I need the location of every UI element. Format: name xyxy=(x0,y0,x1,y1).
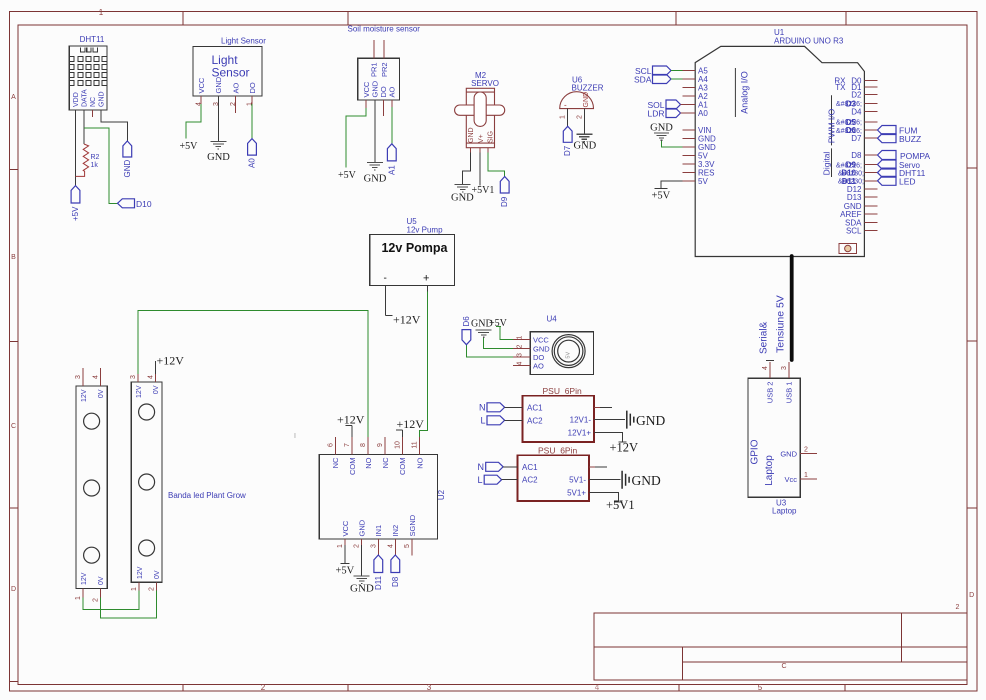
svg-text:VDD: VDD xyxy=(73,92,80,107)
ground GND (U4) xyxy=(471,319,493,338)
svg-text:12V: 12V xyxy=(137,566,144,579)
svg-text:11: 11 xyxy=(412,441,419,448)
svg-text:3: 3 xyxy=(781,366,788,370)
svg-text:+12V: +12V xyxy=(157,354,185,368)
svg-text:GND: GND xyxy=(632,473,661,488)
svg-text:5V: 5V xyxy=(698,177,708,186)
wire PSU1 12V1+ to +12V xyxy=(594,432,627,442)
motor M2 SERVO xyxy=(455,71,505,148)
svg-text:2: 2 xyxy=(804,447,808,454)
svg-text:V+: V+ xyxy=(478,134,485,143)
LED strip1 pin 2 xyxy=(93,588,101,602)
svg-text:Analog I/O: Analog I/O xyxy=(740,71,750,114)
svg-text:-: - xyxy=(384,273,387,284)
svg-text:NO: NO xyxy=(364,457,373,468)
svg-text:GPIO: GPIO xyxy=(750,439,761,464)
ground GND (Light Sensor) xyxy=(207,142,230,164)
relay pin 7 to +12V xyxy=(344,426,352,455)
net flag L (PSU2) xyxy=(477,475,517,485)
svg-text:1: 1 xyxy=(99,8,104,17)
component DHT11 xyxy=(69,35,107,110)
svg-text:1: 1 xyxy=(517,335,524,339)
svg-text:5V: 5V xyxy=(566,352,572,359)
svg-text:GND: GND xyxy=(574,141,597,152)
LED strip2 pin 2 xyxy=(148,582,156,591)
svg-text:COM: COM xyxy=(398,458,407,476)
wire DHT11 GND xyxy=(101,110,127,141)
svg-text:5: 5 xyxy=(758,683,763,692)
wire servo SIG to D9 xyxy=(488,148,505,177)
net flag D6 xyxy=(462,316,471,345)
svg-text:0V: 0V xyxy=(153,385,160,394)
svg-text:IN2: IN2 xyxy=(391,525,400,537)
svg-text:D: D xyxy=(969,592,974,599)
USB cable U1 to U3 xyxy=(790,256,794,360)
svg-text:D7: D7 xyxy=(563,145,572,156)
component Light Sensor xyxy=(193,37,266,107)
net flag LDR xyxy=(647,109,682,119)
svg-text:NC: NC xyxy=(381,457,390,468)
svg-text:12V: 12V xyxy=(81,389,88,402)
wire soil AO to A1 xyxy=(391,100,393,144)
svg-text:4: 4 xyxy=(517,361,524,365)
wire relay NO pin8 to LED strip xyxy=(138,311,368,437)
wire soil DO stub xyxy=(382,100,384,116)
power supply PSU_6Pin (5V) xyxy=(518,446,589,502)
svg-text:D7: D7 xyxy=(851,134,862,143)
svg-text:AC1: AC1 xyxy=(522,463,538,472)
net flag D9 xyxy=(500,177,509,208)
svg-text:DO: DO xyxy=(248,82,257,93)
svg-text:I: I xyxy=(294,433,296,440)
PSU2 unused pin stub xyxy=(589,466,595,468)
net flag BUZZ xyxy=(878,134,922,144)
svg-text:2: 2 xyxy=(354,544,361,548)
svg-text:GND: GND xyxy=(214,76,223,93)
svg-text:B: B xyxy=(11,254,16,261)
LED strip2 pin 3 xyxy=(130,374,138,382)
svg-text:PSU_6Pin: PSU_6Pin xyxy=(543,386,582,396)
svg-text:4: 4 xyxy=(595,683,600,692)
wire servo GND xyxy=(463,148,471,184)
svg-text:D: D xyxy=(11,586,16,593)
title block xyxy=(594,613,967,680)
svg-text:5V1+: 5V1+ xyxy=(567,489,586,498)
svg-text:Digital: Digital xyxy=(822,152,832,176)
svg-text:+5V: +5V xyxy=(652,191,671,202)
svg-text:D9: D9 xyxy=(500,196,509,207)
svg-text:PR2: PR2 xyxy=(380,62,389,77)
ground GND (soil) xyxy=(364,163,387,185)
svg-text:U4: U4 xyxy=(547,315,558,324)
svg-text:LED: LED xyxy=(899,177,916,187)
net label Serial & Tensiune 5V xyxy=(759,295,787,354)
net flag N (PSU1) xyxy=(479,403,523,413)
svg-text:+5V: +5V xyxy=(180,141,199,152)
svg-text:GND: GND xyxy=(99,91,106,107)
net flag SCL xyxy=(635,66,683,76)
svg-text:D13: D13 xyxy=(847,193,862,202)
svg-text:+5V: +5V xyxy=(336,566,355,577)
wire pump minus to +12V xyxy=(386,286,393,316)
svg-text:LDR: LDR xyxy=(647,109,664,119)
logo mark U1 xyxy=(839,244,857,254)
svg-text:D10: D10 xyxy=(136,199,152,209)
U3 pin 3 (USB 1) xyxy=(781,362,789,378)
svg-text:L: L xyxy=(480,416,485,426)
relay module U2 xyxy=(319,455,446,540)
svg-text:TX: TX xyxy=(835,83,846,92)
net flag D10 xyxy=(118,199,152,209)
svg-text:VCC: VCC xyxy=(362,81,371,97)
svg-text:D4: D4 xyxy=(851,108,862,117)
svg-text:SERVO: SERVO xyxy=(471,79,499,88)
wire DHT11 DATA xyxy=(83,110,85,144)
svg-text:NO: NO xyxy=(415,457,424,468)
svg-text:D11: D11 xyxy=(374,575,383,590)
svg-text:GND: GND xyxy=(358,519,367,536)
svg-text:4: 4 xyxy=(93,375,100,379)
LED strip 1 xyxy=(76,386,107,588)
svg-text:A0: A0 xyxy=(698,109,708,118)
svg-text:GND: GND xyxy=(780,449,797,458)
svg-text:+: + xyxy=(423,273,429,285)
wire LightSensor AO stub xyxy=(235,96,237,113)
svg-text:1: 1 xyxy=(560,115,567,119)
svg-text:VCC: VCC xyxy=(341,520,350,536)
wire LightSensor DO to A0 xyxy=(251,96,253,139)
relay pin 9 stub xyxy=(377,437,385,455)
svg-text:1k: 1k xyxy=(91,162,99,169)
relay pin 5 SGND stub xyxy=(404,539,412,556)
svg-text:12V: 12V xyxy=(81,572,88,585)
PSU1 unused pin stub xyxy=(594,406,600,408)
svg-text:2: 2 xyxy=(261,683,266,692)
net flag DHT11 xyxy=(878,168,926,178)
net flag D8 xyxy=(391,555,400,587)
svg-text:+5V1: +5V1 xyxy=(606,498,635,512)
U3 pin 2 GND xyxy=(800,447,817,454)
svg-text:Laptop: Laptop xyxy=(764,455,775,486)
net flag Servo xyxy=(878,160,921,170)
svg-text:L: L xyxy=(477,475,482,485)
ground GND (relay) xyxy=(350,576,374,595)
net flag GND (DHT11) xyxy=(123,141,132,178)
U4 pin 2 GND xyxy=(484,337,531,349)
svg-text:7: 7 xyxy=(344,443,351,447)
wire LightSensor VCC to +5V xyxy=(186,96,201,139)
svg-text:3: 3 xyxy=(75,375,82,379)
relay pin 3 IN1 to D11 xyxy=(370,539,378,555)
svg-text:Soil moisture sensor: Soil moisture sensor xyxy=(348,25,421,34)
wire strip1 pin2 to strip2 pin2 xyxy=(101,591,157,618)
net flag L (PSU1) xyxy=(480,416,522,426)
svg-text:Vcc: Vcc xyxy=(784,475,797,484)
svg-text:+12V: +12V xyxy=(610,441,639,455)
wire strip1 pin1 to strip2 pin1 xyxy=(83,591,139,610)
power supply PSU_6Pin (12V) xyxy=(523,386,595,442)
svg-text:1: 1 xyxy=(804,472,808,479)
svg-text:D6: D6 xyxy=(462,316,471,327)
svg-text:GND: GND xyxy=(123,160,132,178)
ground GND (U1) xyxy=(650,123,683,148)
net flag N (PSU2) xyxy=(478,462,518,472)
connector U3 Laptop xyxy=(748,378,800,515)
svg-text:4: 4 xyxy=(762,366,769,370)
svg-text:AO: AO xyxy=(533,362,544,371)
wire soil sensor PR2 pin xyxy=(383,40,385,58)
svg-text:10: 10 xyxy=(394,441,401,449)
svg-text:+5V: +5V xyxy=(338,170,357,181)
svg-text:AO: AO xyxy=(388,86,397,97)
svg-text:GND: GND xyxy=(471,319,493,330)
svg-text:+12V: +12V xyxy=(393,313,421,327)
svg-text:2: 2 xyxy=(576,115,583,119)
svg-text:AC2: AC2 xyxy=(522,476,538,485)
svg-text:PSU_6Pin: PSU_6Pin xyxy=(538,446,577,456)
relay pin 2 GND wire xyxy=(354,539,362,576)
svg-text:SIG: SIG xyxy=(488,131,495,143)
svg-text:PR1: PR1 xyxy=(370,62,379,77)
wire buzzer pin2 to GND xyxy=(576,109,584,134)
svg-text:12V: 12V xyxy=(136,385,143,398)
gas sensor U4 xyxy=(530,315,593,375)
svg-text:USB 2: USB 2 xyxy=(766,382,775,404)
net flag SOL xyxy=(647,100,682,110)
wire soil sensor PR1 pin xyxy=(373,40,375,58)
svg-text:U2: U2 xyxy=(437,489,446,500)
svg-text:12v Pompa: 12v Pompa xyxy=(381,241,448,255)
svg-text:DATA: DATA xyxy=(82,89,89,107)
svg-text:2: 2 xyxy=(517,344,524,348)
svg-text:VCC: VCC xyxy=(197,77,206,93)
svg-text:SCL: SCL xyxy=(846,227,862,236)
svg-text:NC: NC xyxy=(331,457,340,468)
ground GND (buzzer) xyxy=(574,134,597,151)
net flag POMPA xyxy=(878,151,931,161)
relay pin 4 IN2 to D8 xyxy=(387,539,395,555)
relay pin 10 to +12V xyxy=(394,430,402,455)
svg-text:AC1: AC1 xyxy=(527,403,543,412)
svg-text:6: 6 xyxy=(327,443,334,447)
svg-text:+5V1: +5V1 xyxy=(472,185,495,196)
svg-text:+12V: +12V xyxy=(397,417,425,431)
svg-text:Banda led Plant Grow: Banda led Plant Grow xyxy=(168,491,246,500)
svg-text:-: - xyxy=(564,101,567,110)
svg-text:SDA: SDA xyxy=(634,75,652,85)
svg-text:D2: D2 xyxy=(851,91,862,100)
pump U5 xyxy=(370,217,455,286)
svg-text:AC2: AC2 xyxy=(527,416,543,425)
wire DHT11 NC stub xyxy=(92,110,94,117)
svg-text:USB 1: USB 1 xyxy=(785,382,794,404)
net flag A1 xyxy=(387,144,396,175)
wire servo V+ to +5V1 xyxy=(479,148,481,186)
svg-text:3: 3 xyxy=(213,102,220,106)
power ground GND (PSU1) xyxy=(627,411,666,429)
U1 right pin stubs xyxy=(864,80,877,230)
svg-text:GND: GND xyxy=(207,152,230,163)
svg-text:1: 1 xyxy=(337,544,344,548)
resistor R2 xyxy=(76,144,100,176)
svg-text:GND: GND xyxy=(650,123,673,134)
svg-text:4: 4 xyxy=(387,544,394,548)
svg-text:A0: A0 xyxy=(248,158,257,168)
relay pin 8 stub xyxy=(360,437,368,455)
svg-text:DHT11: DHT11 xyxy=(80,35,105,44)
svg-text:SGND: SGND xyxy=(408,514,417,536)
svg-text:VCC: VCC xyxy=(533,336,549,345)
relay pin 6 stub xyxy=(327,437,335,455)
svg-text:0V: 0V xyxy=(98,576,105,585)
svg-text:Light Sensor: Light Sensor xyxy=(221,37,266,46)
svg-text:3: 3 xyxy=(130,375,137,379)
svg-text:IN1: IN1 xyxy=(374,525,383,537)
U3 pin 4 (USB 2) to Serial net xyxy=(762,361,774,379)
svg-text:1: 1 xyxy=(75,596,82,600)
net flag A0 xyxy=(248,139,257,168)
LED strip2 pin 4 to +12V xyxy=(148,361,156,382)
net flag D7 xyxy=(563,126,572,156)
U4 pin 4 AO stub xyxy=(513,361,530,365)
svg-text:A1: A1 xyxy=(387,165,396,175)
relay pin 1 VCC to +5V xyxy=(337,539,349,564)
svg-text:2: 2 xyxy=(148,587,155,591)
svg-text:GND: GND xyxy=(364,174,387,185)
U4 pin 1 VCC to +5V xyxy=(496,327,531,340)
U4 pin 3 DO to D6 xyxy=(466,345,530,357)
svg-text:D8: D8 xyxy=(391,576,400,587)
svg-text:GND: GND xyxy=(350,583,374,595)
LED strip1 pin 1 xyxy=(75,588,83,600)
LED strip1 pin 4 stub xyxy=(93,368,101,386)
wire U1 5V to +5V xyxy=(654,181,682,189)
wire pump plus to relay NO pin11 xyxy=(420,286,428,437)
svg-text:D8: D8 xyxy=(851,151,862,160)
U3 pin 1 Vcc xyxy=(800,472,817,479)
svg-text:R2: R2 xyxy=(91,154,100,161)
svg-text:Tensiune 5V: Tensiune 5V xyxy=(775,295,787,353)
svg-text:4: 4 xyxy=(148,375,155,379)
svg-text:BUZZER: BUZZER xyxy=(572,84,604,93)
ground GND (servo) xyxy=(451,185,474,204)
LED strip1 pin 3 stub xyxy=(75,368,83,386)
wire LightSensor GND xyxy=(217,96,219,141)
svg-text:0V: 0V xyxy=(154,570,161,579)
wire soil VCC to +5V xyxy=(346,100,366,167)
power ground GND (PSU2) xyxy=(622,471,661,489)
wire buzzer pin1 to D7 xyxy=(560,109,568,127)
svg-text:N: N xyxy=(479,403,486,413)
wire soil GND xyxy=(374,100,376,162)
svg-text:C: C xyxy=(781,663,786,670)
buzzer U6 xyxy=(560,76,604,110)
component Soil moisture sensor xyxy=(348,25,421,100)
svg-text:+12V: +12V xyxy=(337,413,365,427)
svg-text:3: 3 xyxy=(427,683,432,692)
svg-text:Laptop: Laptop xyxy=(772,507,797,516)
svg-text:1: 1 xyxy=(131,587,138,591)
svg-text:ARDUINO UNO R3: ARDUINO UNO R3 xyxy=(774,37,844,46)
svg-text:GND: GND xyxy=(468,127,475,143)
relay pin 11 stub xyxy=(412,437,420,455)
svg-text:3: 3 xyxy=(517,353,524,357)
svg-text:C: C xyxy=(11,423,16,430)
svg-text:+5V: +5V xyxy=(71,206,80,221)
svg-text:N: N xyxy=(478,462,485,472)
svg-text:3: 3 xyxy=(370,544,377,548)
net flag +5V (DHT11) xyxy=(71,186,80,221)
svg-text:0V: 0V xyxy=(98,389,105,398)
svg-text:NC: NC xyxy=(90,97,97,107)
svg-text:2: 2 xyxy=(93,598,100,602)
svg-text:Serial&: Serial& xyxy=(759,321,770,354)
svg-text:2: 2 xyxy=(956,604,960,611)
net flag D11 xyxy=(374,555,383,590)
wire PSU2 5V1+ to +5V1 xyxy=(589,492,623,502)
svg-text:POMPA: POMPA xyxy=(900,151,930,161)
svg-text:BUZZ: BUZZ xyxy=(899,134,921,144)
svg-text:5: 5 xyxy=(404,544,411,548)
svg-text:8: 8 xyxy=(360,443,367,447)
net flag SDA xyxy=(634,75,683,85)
LED strip 2 xyxy=(131,382,162,582)
wire DHT11 VDD to +5V xyxy=(75,110,77,186)
svg-text:A: A xyxy=(11,94,16,101)
svg-text:12V1-: 12V1- xyxy=(570,416,592,425)
net flag LED xyxy=(878,176,916,186)
MCU U1 ARDUINO UNO R3 xyxy=(695,28,864,257)
svg-text:5V1-: 5V1- xyxy=(569,476,586,485)
wire PSU1 12V1- to GND xyxy=(594,419,625,421)
svg-text:COM: COM xyxy=(348,458,357,476)
svg-text:AO: AO xyxy=(231,82,240,93)
wire DATA to D10 xyxy=(84,128,118,203)
svg-text:GND: GND xyxy=(583,92,590,108)
svg-text:GND: GND xyxy=(636,413,665,428)
svg-text:12v Pump: 12v Pump xyxy=(407,226,444,235)
U1 left pin stubs xyxy=(683,71,696,182)
svg-text:9: 9 xyxy=(377,443,384,447)
wire PSU2 5V1- to GND xyxy=(589,479,621,481)
net flag FUM xyxy=(878,126,918,136)
LED strip2 pin 1 xyxy=(131,582,139,591)
svg-text:12V1+: 12V1+ xyxy=(568,428,592,437)
